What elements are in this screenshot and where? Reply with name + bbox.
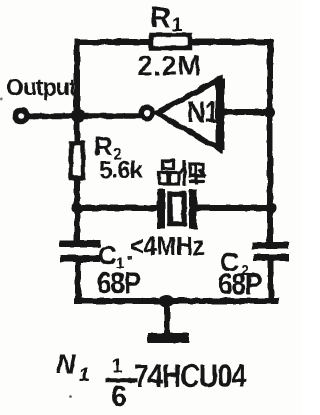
- svg-text:<4MHz: <4MHz: [130, 232, 204, 261]
- svg-text:2.2M: 2.2M: [137, 50, 201, 81]
- svg-text:74HCU04: 74HCU04: [134, 359, 247, 395]
- svg-text:1: 1: [172, 15, 183, 36]
- svg-text:6: 6: [111, 381, 127, 413]
- svg-text:5.6k: 5.6k: [99, 157, 143, 184]
- svg-text:68P: 68P: [218, 267, 262, 300]
- svg-text:N1: N1: [187, 95, 219, 128]
- svg-text:N: N: [56, 349, 76, 379]
- svg-text:Output: Output: [6, 74, 77, 100]
- svg-text:68P: 68P: [97, 266, 141, 299]
- svg-text:1: 1: [79, 365, 90, 386]
- svg-text:1: 1: [112, 356, 123, 377]
- svg-text:R: R: [150, 2, 171, 34]
